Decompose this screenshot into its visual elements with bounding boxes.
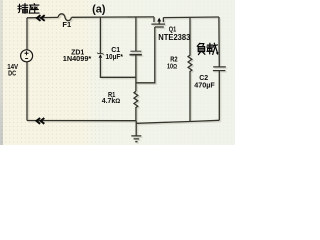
label 插座 (hand-drawn) xyxy=(18,4,39,14)
svg-text:1N4099*: 1N4099* xyxy=(63,56,92,63)
capacitor C1 branch wires xyxy=(135,17,137,91)
transistor Q1 arrow xyxy=(157,18,161,22)
wire bottom rail xyxy=(27,120,136,122)
wire gate lead xyxy=(136,27,155,83)
source V1 minus xyxy=(25,58,28,60)
svg-text:F1: F1 xyxy=(62,20,71,29)
svg-text:C2: C2 xyxy=(199,75,208,82)
svg-text:NTE2383: NTE2383 xyxy=(158,33,191,42)
svg-text:4.7kΩ: 4.7kΩ xyxy=(102,98,121,105)
capacitor C2 plates xyxy=(213,67,226,71)
svg-text:(a): (a) xyxy=(92,4,106,16)
zener ZD1 branch wires xyxy=(100,17,135,77)
zener ZD1 bar xyxy=(97,53,103,55)
svg-text:10Ω: 10Ω xyxy=(167,64,177,71)
resistor R1 xyxy=(134,91,138,120)
svg-text:R2: R2 xyxy=(170,56,177,63)
wire load bottom return xyxy=(136,120,219,123)
source V1 circle xyxy=(21,50,33,62)
wire top rail right xyxy=(163,16,219,19)
fuse F1 xyxy=(58,14,72,21)
source V1 plus xyxy=(25,51,29,55)
connector top chevrons xyxy=(37,15,45,21)
svg-text:470µF: 470µF xyxy=(194,83,215,90)
wire left rail xyxy=(26,18,28,121)
wire right edge / capacitor C2 branch xyxy=(218,17,220,120)
resistor R2 branch xyxy=(188,17,192,121)
svg-text:10µF*: 10µF* xyxy=(105,54,123,61)
svg-text:DC: DC xyxy=(8,71,16,78)
ground xyxy=(131,121,141,142)
label 负载 (hand-drawn) xyxy=(197,43,218,54)
transistor Q1 bars xyxy=(151,17,165,24)
wire top rail middle xyxy=(72,16,155,18)
wire top rail left xyxy=(27,16,58,18)
transistor Q1 gate bar xyxy=(155,26,164,28)
connector bottom chevrons xyxy=(37,118,45,124)
capacitor C1 plates xyxy=(130,50,141,52)
zener ZD1 triangle xyxy=(99,54,103,58)
